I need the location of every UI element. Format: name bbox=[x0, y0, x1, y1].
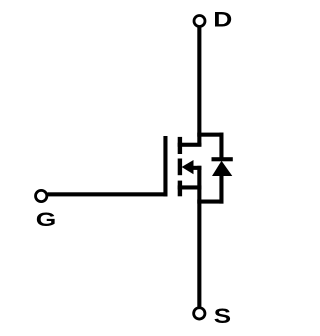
wire body arrow tail bbox=[193, 166, 202, 170]
transistor Q1 body arrow (points to channel) bbox=[182, 160, 194, 174]
node D label bbox=[213, 8, 232, 32]
svg-text:G: G bbox=[36, 208, 57, 230]
wire drain stub (channel top bar to drain vertical) bbox=[178, 143, 202, 147]
wire diode cathode vertical bbox=[219, 133, 223, 159]
wire diode top branch bbox=[197, 133, 223, 137]
wire drain vertical (D terminal to drain stub) bbox=[197, 27, 201, 147]
transistor Q1 gate bar bbox=[163, 136, 167, 196]
transistor Q1 channel bar top (drain) bbox=[178, 137, 182, 154]
terminal circle D bbox=[194, 16, 205, 27]
wire gate horizontal (G terminal to gate bar) bbox=[48, 192, 168, 196]
svg-text:S: S bbox=[214, 304, 231, 328]
transistor Q1 channel bar bottom (source) bbox=[178, 181, 182, 197]
node S label bbox=[214, 304, 231, 328]
diode D1 triangle (anode, pointing up) bbox=[212, 161, 232, 176]
wire source vertical (arrow corner down to S terminal) bbox=[197, 166, 201, 307]
node G label bbox=[36, 208, 57, 230]
wire source stub (channel bottom bar to source vertical) bbox=[178, 185, 202, 189]
svg-text:D: D bbox=[213, 8, 232, 32]
diode D1 cathode bar bbox=[212, 157, 233, 161]
wire diode anode vertical bbox=[219, 175, 223, 204]
terminal circle G bbox=[36, 190, 47, 201]
wire diode bottom branch (to source) bbox=[197, 200, 223, 204]
transistor Q1 channel bar middle (body) bbox=[178, 159, 182, 176]
terminal circle S bbox=[194, 308, 205, 319]
